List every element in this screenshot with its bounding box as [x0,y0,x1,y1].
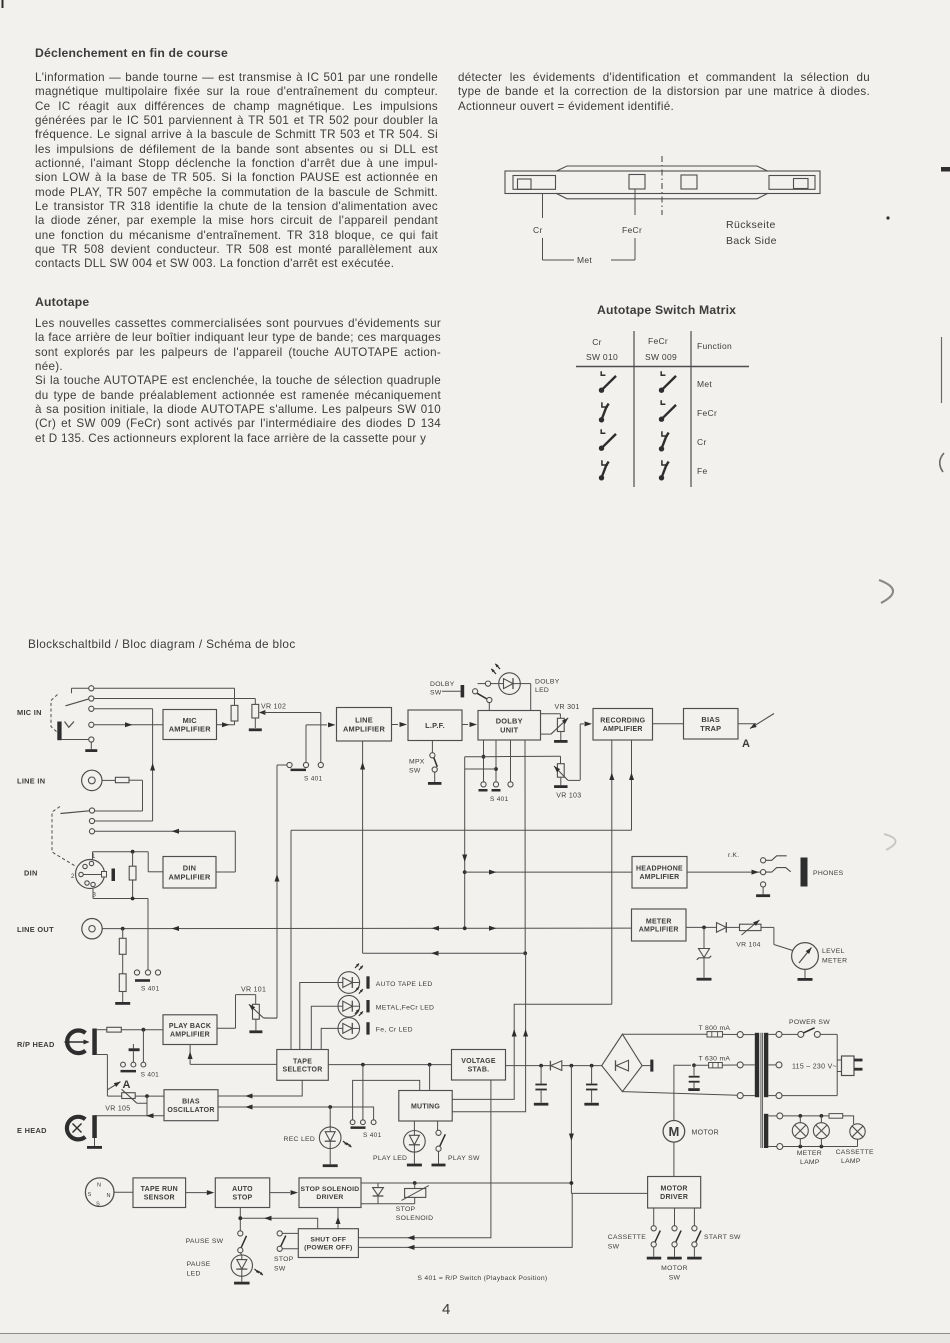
wire RECORDING AMPLIFIER to BIAS TRAP [653,723,684,725]
ground (start sw) [687,1257,702,1260]
solenoid rail bottom [361,1203,415,1205]
heading: Blockschaltbild [28,637,296,651]
svg-text:LAMP: LAMP [800,1159,820,1166]
flow arrow hold line [264,1216,272,1221]
svg-text:TAPE RUN: TAPE RUN [141,1186,178,1193]
label METER LAMP [797,1150,822,1166]
box METER AMPLIFIER [632,909,687,941]
meter amp output wire [686,926,717,928]
svg-text:LEVEL: LEVEL [822,948,845,955]
svg-text:DOLBY: DOLBY [430,681,455,688]
dolby pin1 wire [483,740,485,782]
wire S401 to VR101 wiper (playback feed) [264,765,287,1018]
wire mic row3 down to line-in selector [94,709,153,821]
ground (level meter) [798,969,813,980]
dolby pin2 wire [495,740,497,782]
svg-text:VR 101: VR 101 [241,987,266,994]
svg-text:PAUSE: PAUSE [187,1261,211,1268]
lamp METER LAMP 1 [792,1116,808,1147]
S401 bar [121,1070,137,1073]
resistor (mic input) [231,705,238,721]
svg-text:L.P.F.: L.P.F. [425,721,445,730]
box PLAY BACK AMPLIFIER [163,1015,217,1045]
box HEADPHONE AMPLIFIER [632,857,687,889]
svg-text:AMPLIFIER: AMPLIFIER [343,724,385,733]
svg-text:LINE: LINE [355,716,373,725]
node lamp1 bottom [798,1145,802,1149]
ground (zener) [697,958,712,981]
svg-text:S 401: S 401 [141,986,160,993]
switch MPX SW [430,741,438,773]
wire TAPE SELECTOR to VOLTAGE STAB [328,1064,451,1066]
playback amp output to VR101 [217,995,256,1029]
LED DOLBY LED [478,673,521,695]
ground (motor cap) [688,1088,700,1091]
playback amp bottom feed [190,1045,277,1065]
box VOLTAGE STAB. [452,1050,506,1081]
wire node pin2 left [465,768,496,770]
svg-text:START SW: START SW [704,1234,741,1241]
speck [886,216,889,219]
svg-text:POWER SW: POWER SW [789,1019,830,1026]
S401 contacts (muting) [350,1120,376,1125]
wire VOLTAGE STAB output [506,1065,551,1067]
flow arrow into HEADPHONE AMPLIFIER [489,870,497,875]
label DOLBY SW [430,681,455,697]
svg-text:N: N [97,1183,101,1189]
wire cap node to fuse [694,1064,709,1066]
motor driver supply line [570,1066,572,1194]
LED PAUSE LED [231,1253,252,1277]
node muting supply branch [428,1063,432,1067]
svg-text:AMPLIFIER: AMPLIFIER [639,927,679,934]
ground (REC LED) [323,1149,338,1168]
dolby pin3 wire [510,740,512,782]
svg-text:LAMP: LAMP [841,1158,861,1165]
flow arrow up (record line) [150,763,155,771]
wire headphone amp to phones jack [687,871,761,873]
svg-text:R/P HEAD: R/P HEAD [17,1040,55,1049]
svg-text:2: 2 [71,874,75,880]
DIN connector [76,860,116,889]
box LINE AMPLIFIER [337,708,392,742]
box STOP SOLENOID DRIVER [299,1178,361,1208]
flow arrow up rail1 [512,1029,517,1037]
line-in jack [82,770,102,790]
svg-text:FeCr: FeCr [622,225,642,235]
svg-text:LED: LED [535,687,549,694]
flow arrow down supply [569,1134,574,1142]
off-page connector A (from bias trap) [107,1079,130,1091]
wire supply to MOTOR DRIVER [571,1192,647,1194]
S401 bars [479,789,501,792]
center notch [681,175,697,189]
resistor (head) [107,1027,122,1032]
ground (VR102) [249,718,262,731]
wire S401 c3 to bias osc / rec led [218,1107,374,1120]
wire node to headphone feed [465,756,484,758]
svg-text:S 401: S 401 [490,796,509,803]
flow arrow to phones [752,870,760,875]
node line-amp feedback tap [523,951,527,955]
wire jack to resistor [102,779,115,781]
svg-text:SW: SW [430,690,442,697]
svg-text:MOTOR: MOTOR [692,1130,719,1137]
flow arrow to line-in selector [172,829,180,834]
svg-text:METAL,FeCr LED: METAL,FeCr LED [376,1005,434,1012]
flow arrow up into REC AMP pin2 [629,773,634,781]
flow arrow up into PLAY BACK AMPLIFIER [188,1052,193,1060]
svg-text:RECORDING: RECORDING [600,718,645,725]
wire fuse to tap 2 [722,1064,737,1066]
switch SW010 Fe (open) [599,460,609,480]
svg-text:DOLBY: DOLBY [496,717,523,726]
wire headphone feed vertical [464,757,466,929]
node line out divider [121,927,125,931]
E head symbol [67,1117,85,1140]
switch SW009 FeCr (closed) [659,400,676,422]
dolby pin4 / supply line [524,740,526,953]
switch SW009 Met (closed) [659,371,676,393]
flow arrow into MIC AMPLIFIER [125,722,133,727]
S401 contacts (record select) [287,762,324,767]
mic switch contact 4 [89,722,94,727]
svg-text:PAUSE SW: PAUSE SW [186,1238,224,1245]
ground (PLAY SW) [432,1151,446,1166]
mic switch contact 1 [89,686,94,691]
ground (motor sw) [667,1257,682,1260]
label MOTOR SW [661,1265,688,1282]
mains plug [837,1056,862,1076]
lamp CASSETTE LAMP [850,1124,865,1147]
svg-text:DIN: DIN [183,864,196,873]
svg-text:Cr: Cr [533,225,543,235]
box TAPE RUN SENSOR [133,1178,186,1208]
phones jack sleeve bar [801,858,808,887]
svg-text:CASSETTE: CASSETTE [608,1234,646,1241]
ground (PAUSE LED) [234,1276,250,1284]
svg-text:Back Side: Back Side [726,235,777,247]
bridge rectifier [602,1034,642,1091]
matrix column divider 1 [633,331,635,487]
svg-text:A: A [123,1079,131,1091]
flow arrow into LPF [400,722,408,727]
svg-text:AMPLIFIER: AMPLIFIER [603,726,643,733]
flow arrow into DOLBY UNIT [470,722,478,727]
line-in selector contact 2 [89,818,94,823]
flow arrow into BIAS OSCILLATOR (upper) [245,1094,253,1099]
diode (supply) [550,1061,601,1071]
svg-text:SW: SW [669,1275,681,1282]
resistor (line out divider 2) [119,954,126,991]
wire DIN pin3 [93,889,148,970]
label STOP SOLENOID [396,1206,434,1222]
wire supply branch to MUTING [429,1065,431,1091]
LED PLAY LED [404,1121,426,1152]
node bus/headphone column [463,926,467,930]
emission arrows (fe cr led) [354,1008,360,1014]
svg-text:Fe: Fe [697,466,708,476]
svg-text:DRIVER: DRIVER [660,1194,688,1201]
wire to AUTO STOP [186,1192,207,1194]
svg-text:BIAS: BIAS [182,1099,200,1106]
svg-text:SW: SW [409,768,421,775]
svg-text:LINE IN: LINE IN [17,777,45,786]
meter LEVEL METER [792,943,819,970]
svg-text:AMPLIFIER: AMPLIFIER [170,1031,210,1038]
wire shutoff return [358,1193,572,1247]
resistor (line in) [115,777,129,782]
node head/mute tap [142,1028,146,1032]
capacitor tap (head mute) [129,1044,140,1062]
svg-text:STOP: STOP [274,1256,294,1263]
node lamp1 top [798,1114,802,1118]
svg-text:S: S [96,1202,100,1208]
box MOTOR DRIVER [648,1177,701,1209]
wire S401 center to LINE AMPLIFIER [306,725,327,763]
capacitor (supply 2) [586,1066,597,1103]
ground (cap1) [534,1103,549,1106]
flow arrow to LINE OUT [172,926,180,931]
svg-text:STAB.: STAB. [468,1066,490,1073]
switch PLAY SW [436,1121,445,1151]
node supply/relay [570,1181,574,1185]
wire to HEADPHONE AMPLIFIER [465,871,632,873]
scan mark top left [2,0,4,8]
fuse T 800 mA [707,1032,723,1037]
wire DIN amp output to selector [95,831,236,872]
svg-text:SW 009: SW 009 [645,352,677,362]
wire supply to relay rail [361,1182,571,1184]
cassette back-side diagram outline [505,171,820,194]
line-in selector lever [61,811,90,814]
label STOP SW [274,1256,294,1273]
line-out jack [82,919,102,939]
box RECORDING AMPLIFIER [593,709,653,741]
mic jack sleeve bar [57,722,61,741]
ground (line out divider) [115,992,130,1005]
svg-text:Function: Function [697,341,732,351]
recording amp bottom feed 2 [291,740,632,1050]
matrix header Cr SW 010 [586,337,618,362]
wire SHUT OFF to driver [337,1208,339,1229]
emission arrows (pause led) [253,1268,259,1274]
switch CASSETTE SW [651,1208,660,1257]
wire branch to S401 c2 [362,1065,364,1120]
svg-text:Met: Met [697,379,712,389]
ground (cassette sw) [647,1257,662,1260]
wire bridge bottom to transformer [622,1092,737,1096]
wire mic row1 to R301 top [94,688,235,705]
wire into RECORDING AMPLIFIER [580,724,584,780]
wire node to S401 contact [142,1030,144,1063]
LED METAL,FeCr LED [311,995,369,1049]
transformer windings [755,1033,769,1148]
S401 contact bar [135,979,150,982]
svg-text:METER: METER [797,1150,822,1157]
wire resistor to PLAY BACK AMPLIFIER [121,1029,163,1031]
svg-text:STOP: STOP [396,1206,416,1213]
svg-text:DRIVER: DRIVER [316,1194,343,1201]
matrix header FeCr SW 009 [645,336,677,362]
tape run sensor rotor [85,1178,114,1208]
mic jack dashed bracket [51,695,58,733]
potentiometer VR104 [740,918,762,935]
wire mic row2 to VR102 top [94,699,255,705]
flow arrow into SHUT OFF (lower) [407,1245,415,1250]
svg-text:CASSETTE: CASSETTE [836,1149,874,1156]
svg-text:M: M [668,1124,679,1139]
svg-text:AMPLIFIER: AMPLIFIER [640,874,680,881]
svg-text:HEADPHONE: HEADPHONE [636,866,683,873]
box DIN AMPLIFIER [163,857,216,889]
wire resistor to selector top contact [95,780,143,811]
svg-text:TRAP: TRAP [700,724,721,733]
svg-text:T 800 mA: T 800 mA [699,1025,731,1032]
svg-text:OSCILLATOR: OSCILLATOR [167,1107,214,1114]
svg-text:(POWER OFF): (POWER OFF) [304,1245,352,1252]
box MIC AMPLIFIER [163,710,217,740]
off-page connector A (to head) [742,714,774,751]
svg-text:FeCr: FeCr [648,336,668,346]
supply rail to REC AMP [452,1004,612,1099]
mic switch contact 5 [89,737,94,742]
svg-text:SENSOR: SENSOR [144,1194,175,1201]
svg-text:TAPE: TAPE [293,1058,312,1065]
flow arrow into SHUT OFF (upper) [407,1235,415,1240]
node supply mid [570,1064,574,1068]
svg-text:VR 105: VR 105 [105,1106,130,1113]
paragraph: left column 1 [35,71,438,272]
svg-text:S 401 = R/P Switch (Playback P: S 401 = R/P Switch (Playback Position) [417,1275,547,1282]
wire head to resistor [97,1029,107,1031]
svg-text:STOP SOLENOID: STOP SOLENOID [301,1186,360,1193]
svg-text:LED: LED [187,1271,201,1278]
lamp circuit top rail [783,1115,829,1117]
line out bus [102,927,632,930]
ground (phones) [756,887,770,897]
svg-text:MPX: MPX [409,759,425,766]
potentiometer VR103 [552,764,580,781]
flow arrow up (playback) [275,874,280,882]
label CASSETTE SW [608,1234,646,1251]
svg-text:S: S [88,1192,92,1198]
motor M [663,1121,685,1143]
wire LPF to DOLBY UNIT [462,724,468,726]
bottom scan edge [0,1333,950,1335]
svg-text:VR 102: VR 102 [261,704,286,711]
svg-text:VR 104: VR 104 [736,942,760,949]
emission arrows (dolby led) [490,663,501,675]
svg-text:AUTO: AUTO [232,1186,253,1193]
wire VR104 to level meter [761,927,793,950]
switch SW010 Met (closed) [599,371,616,393]
potentiometer VR301 [541,714,570,735]
svg-text:PHONES: PHONES [813,870,844,877]
svg-text:VR 301: VR 301 [555,704,580,711]
svg-text:MIC IN: MIC IN [17,708,42,717]
leader line FeCr [611,189,635,260]
node mute branch [361,1063,365,1067]
svg-text:SHUT OFF: SHUT OFF [310,1237,346,1244]
ground (PLAY LED) [407,1152,422,1166]
node cap1 [539,1064,543,1068]
potentiometer VR102 [252,704,266,718]
switch DOLBY SW [442,685,492,711]
svg-text:E HEAD: E HEAD [17,1126,47,1135]
svg-text:AMPLIFIER: AMPLIFIER [169,725,211,734]
wire motor to MOTOR DRIVER [673,1142,675,1176]
wire DIN pin1 to DIN AMPLIFIER [93,852,164,872]
box TAPE SELECTOR [277,1050,329,1081]
node dolby pin2 [494,767,498,771]
flow arrow into RECORDING AMPLIFIER [585,721,593,726]
cassette raised band [556,166,768,199]
wire VR102 wiper to S401 [264,713,321,763]
diode (meter rectifier) [717,922,740,932]
flow arrow mic amp out [222,722,230,727]
svg-text:S 401: S 401 [304,776,323,783]
flow arrow up into REC AMP pin1 [609,773,614,781]
wire motor feed [674,1065,691,1120]
svg-text:REC LED: REC LED [284,1136,316,1143]
flow arrow left mid-bus [432,926,440,931]
E head core bar [92,1115,97,1138]
solenoid rail top [361,1182,415,1184]
switch POWER SW [782,1028,820,1038]
heading: Autotape Switch Matrix [597,303,736,317]
box BIAS OSCILLATOR [164,1090,218,1121]
ground (cap2) [584,1103,599,1106]
emission arrows (auto tape led) [354,963,360,969]
node meter rectifier [702,926,706,930]
label Rueckseite / Back Side [726,219,777,247]
svg-text:MOTOR: MOTOR [661,1186,688,1193]
wire bias osc to E head [95,1115,164,1117]
paragraph: left column 2 [35,317,441,446]
recording amp bottom feed 1 [611,740,613,1004]
label DOLBY LED [535,679,560,695]
wire head lower to bias feed [97,1055,108,1097]
flow arrow up rail2 [523,1029,528,1037]
svg-text:PLAY LED: PLAY LED [373,1155,407,1162]
wire bridge to transformer top [622,1033,707,1035]
svg-text:VOLTAGE: VOLTAGE [461,1058,496,1065]
wire BIAS TRAP output [738,723,756,725]
svg-text:LINE OUT: LINE OUT [17,925,54,934]
wire node to VR103 [484,756,561,764]
zener diode (meter) [697,927,711,959]
switch SW009 Fe (open) [659,460,669,480]
switch MOTOR SW center [672,1208,681,1257]
svg-text:Met: Met [577,255,592,265]
scan mark right line [941,337,943,403]
wire mic contact to MIC AMPLIFIER [94,724,163,726]
FeCr detection notch [629,175,645,190]
line-in selector contact 3 [89,829,94,834]
flow arrow into METER AMPLIFIER [489,926,497,931]
emission arrows (metal led) [354,986,360,992]
flow arrow into BIAS OSCILLATOR (lower) [245,1105,253,1110]
page number [442,1301,450,1318]
ground (VR101) [249,1019,262,1033]
resistor (cassette lamp) [829,1114,854,1124]
svg-text:UNIT: UNIT [500,725,518,734]
svg-text:SW: SW [274,1266,286,1273]
svg-text:MOTOR: MOTOR [661,1265,688,1272]
svg-text:Cr: Cr [592,337,602,347]
wire TAPE SELECTOR bottom to bias osc [218,1080,302,1096]
